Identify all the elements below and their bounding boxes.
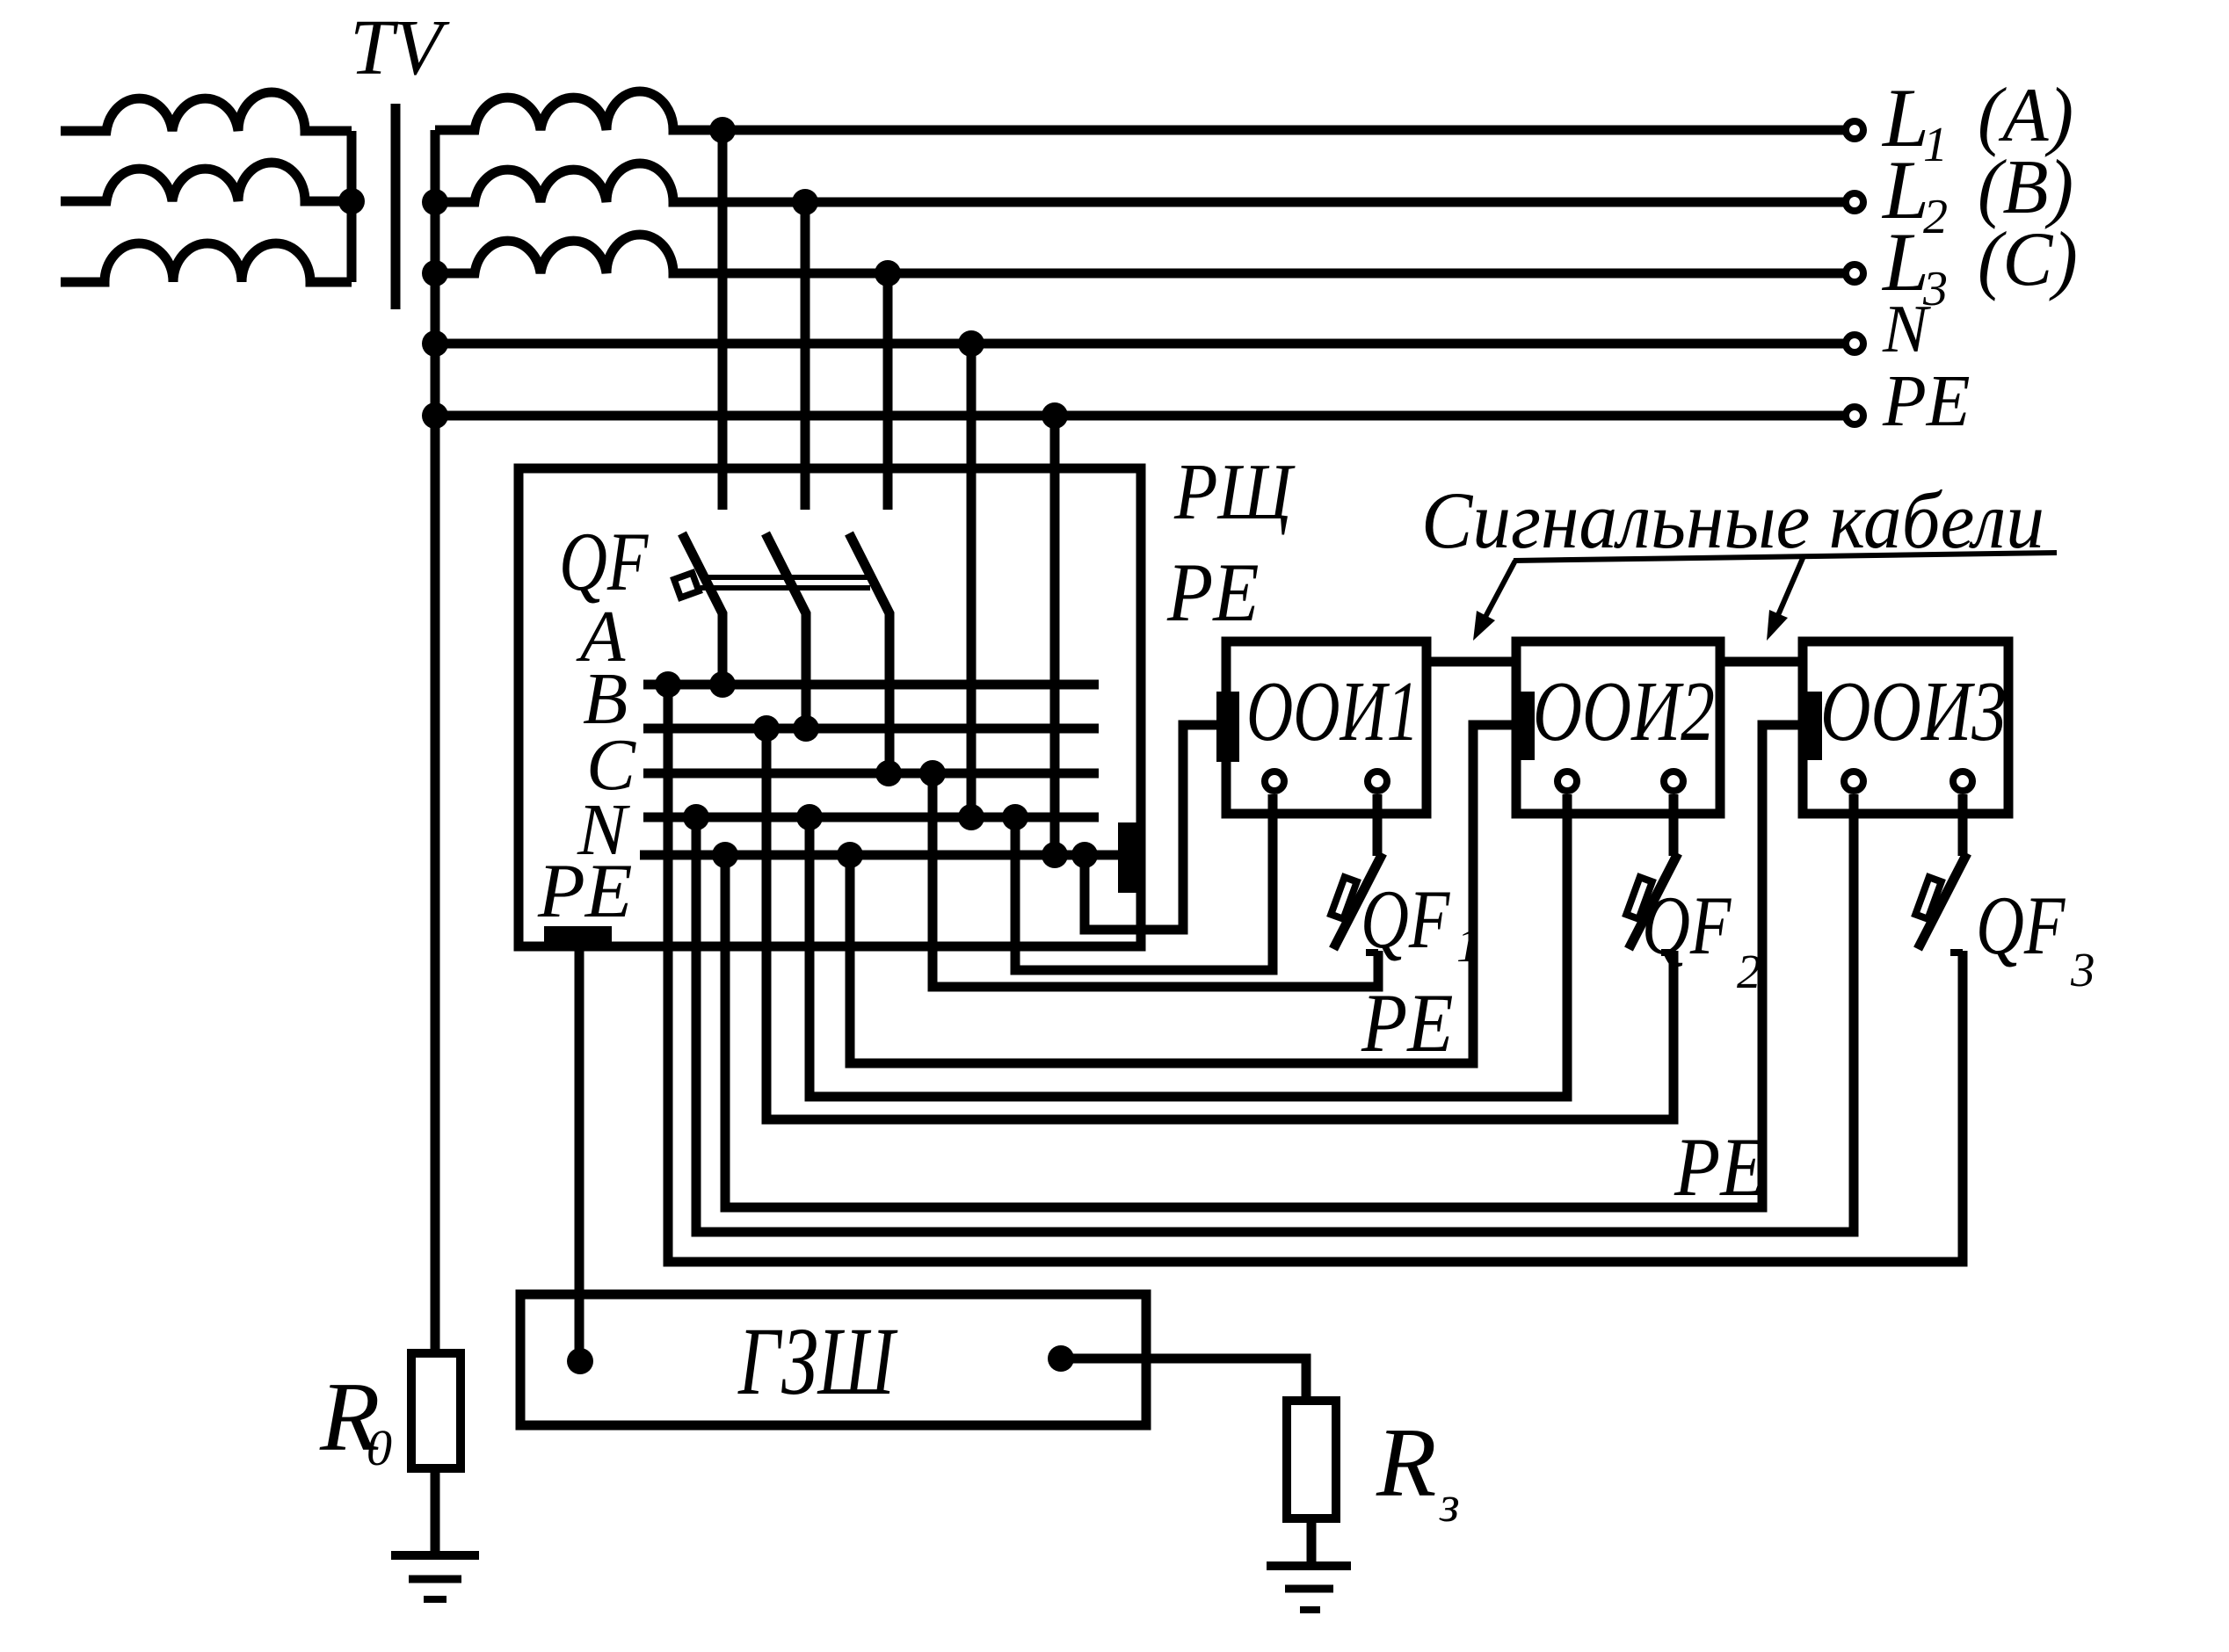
svg-text:ООИ2: ООИ2 [1533,664,1715,758]
svg-text:РЩ: РЩ [1173,447,1296,536]
svg-text:QF: QF [1361,873,1451,966]
svg-text:3: 3 [2070,943,2095,996]
svg-text:TV: TV [350,4,450,91]
svg-text:з: з [1439,1475,1460,1532]
svg-text:Сигнальные кабели: Сигнальные кабели [1421,476,2044,566]
svg-text:QF: QF [1642,879,1732,972]
svg-text:N: N [1882,291,1931,366]
svg-text:(C): (C) [1978,216,2078,301]
svg-text:PE: PE [537,849,633,934]
svg-text:R: R [1376,1409,1436,1518]
svg-text:2: 2 [1737,945,1761,998]
svg-text:QF: QF [1976,879,2066,972]
svg-text:QF: QF [559,515,650,608]
svg-text:PE: PE [1361,976,1453,1069]
svg-text:PE: PE [1166,546,1259,639]
svg-text:PE: PE [1882,359,1971,441]
svg-text:0: 0 [367,1419,392,1476]
svg-text:1: 1 [1456,918,1481,972]
svg-text:ООИ1: ООИ1 [1246,663,1419,758]
svg-text:ООИ3: ООИ3 [1820,665,2007,759]
svg-text:ГЗШ: ГЗШ [737,1308,898,1416]
svg-text:PE: PE [1674,1120,1766,1214]
